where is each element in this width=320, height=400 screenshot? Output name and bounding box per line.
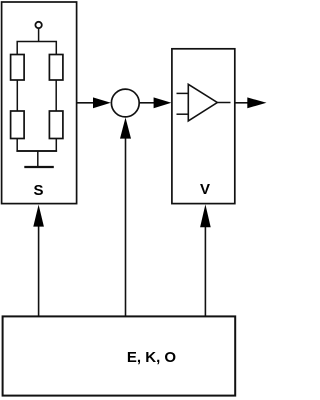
op-amp input pin lower — [177, 113, 189, 115]
arrowhead into amplifier V — [200, 204, 211, 227]
wire terminal to top rail — [38, 28, 40, 41]
svg-text:E, K, O: E, K, O — [127, 349, 177, 366]
arrowhead into summing junction bottom — [120, 118, 131, 139]
resistor R1 (upper left) — [11, 55, 25, 81]
bridge supply terminal (circle) — [35, 22, 41, 28]
wire left mid branch — [16, 80, 18, 111]
wire bottom rail of bridge — [17, 139, 56, 152]
wire S output to summing junction — [76, 102, 94, 104]
wire ground stem — [37, 151, 39, 166]
op-amp input pin upper — [177, 92, 189, 94]
svg-text:V: V — [200, 181, 210, 198]
resistor R3 (lower left) — [11, 111, 25, 139]
resistor R4 (lower right) — [49, 111, 63, 139]
svg-text:S: S — [33, 182, 43, 199]
wire amplifier output — [235, 102, 250, 104]
wire E K O to summing junction — [125, 137, 127, 316]
arrowhead into summing junction — [93, 97, 111, 108]
sensor block S (box) — [2, 2, 77, 204]
arrowhead output — [247, 97, 266, 108]
ground — [24, 166, 54, 168]
resistor R2 (upper right) — [49, 55, 63, 81]
op-amp U1 — [188, 84, 217, 121]
wire E K O to amplifier V — [204, 226, 206, 316]
summing junction node — [111, 89, 139, 117]
wire E K O to sensor S — [38, 225, 40, 316]
wire right mid branch — [55, 80, 57, 111]
amplifier block V (box) — [172, 49, 235, 204]
wire top rail of bridge — [17, 42, 56, 55]
arrowhead into sensor S — [33, 205, 44, 227]
influence block E K O (box) — [3, 316, 236, 395]
wire summing junction to amplifier — [139, 102, 155, 104]
arrowhead into amplifier box — [154, 97, 172, 108]
op-amp output pin — [217, 102, 230, 104]
